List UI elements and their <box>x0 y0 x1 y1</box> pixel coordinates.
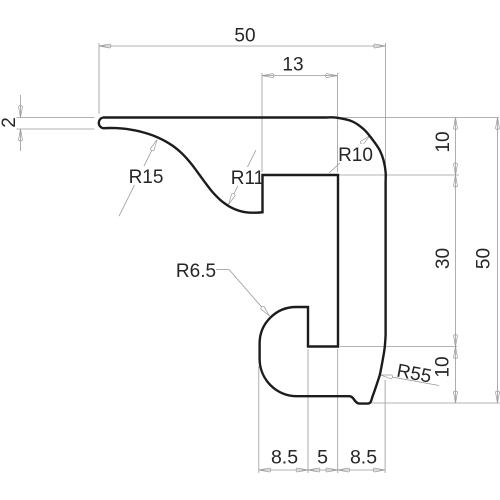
svg-text:13: 13 <box>282 55 303 76</box>
svg-text:50: 50 <box>234 26 255 47</box>
svg-text:50: 50 <box>473 248 494 269</box>
svg-text:R10: R10 <box>338 145 373 166</box>
svg-text:8.5: 8.5 <box>271 447 298 469</box>
svg-text:10: 10 <box>433 356 454 377</box>
svg-text:30: 30 <box>433 248 454 269</box>
svg-text:10: 10 <box>433 131 454 152</box>
svg-text:2: 2 <box>0 117 20 128</box>
svg-text:R15: R15 <box>129 167 164 188</box>
svg-text:R6.5: R6.5 <box>176 261 216 282</box>
svg-text:5: 5 <box>317 447 328 469</box>
svg-text:R11: R11 <box>231 168 264 189</box>
svg-text:8.5: 8.5 <box>350 447 377 469</box>
